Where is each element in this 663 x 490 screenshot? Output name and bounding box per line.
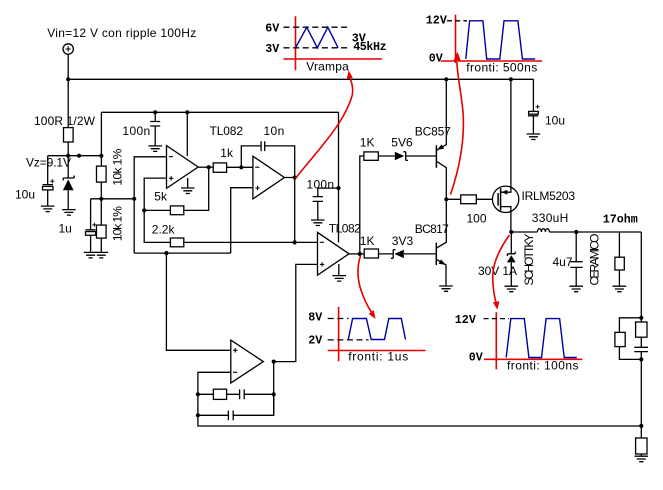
node dot driver output — [444, 197, 448, 201]
feedback resistor op4 — [198, 393, 240, 395]
svg-text:Vin=12 V con ripple 100Hz: Vin=12 V con ripple 100Hz — [47, 26, 196, 40]
resistor 100 gate — [446, 198, 492, 200]
wire terminal to rail — [67, 54, 69, 79]
resistor 1K upper — [364, 152, 378, 160]
svg-text:100n: 100n — [122, 124, 150, 138]
resistor 10k 1% lower — [97, 225, 107, 238]
node dot 4u7 tap — [574, 230, 578, 234]
wire right column down — [640, 359, 642, 438]
op-amp U3 TL082 comparator — [318, 232, 350, 275]
node dot op2 output — [293, 175, 297, 179]
wire 1k to op2 — [227, 166, 253, 168]
node dot rail left — [66, 77, 70, 81]
resistor snubber left branch — [619, 318, 641, 360]
wire output right down — [640, 232, 642, 322]
node dot fb row2 left — [196, 413, 200, 417]
waveform 100ns axes — [484, 312, 582, 369]
wire op4 out down — [273, 362, 275, 416]
svg-text:0V: 0V — [429, 52, 443, 66]
waveform 1us labels — [308, 311, 408, 364]
svg-text:8V: 8V — [308, 311, 322, 325]
ground of 10u output — [527, 134, 541, 140]
node dot fb row1 right — [272, 392, 276, 396]
svg-text:10u: 10u — [15, 187, 35, 201]
resistor 100R 1/2W — [64, 128, 74, 142]
waveform Vrampa dashed levels — [284, 27, 349, 48]
node dot op3 output — [358, 252, 362, 256]
svg-text:1K: 1K — [360, 234, 375, 248]
resistor 1K lower — [364, 249, 378, 258]
svg-text:10n: 10n — [264, 124, 285, 138]
svg-text:12V: 12V — [426, 14, 447, 28]
node dot supply op1 — [185, 110, 189, 114]
op-amp U4 TL082 — [231, 340, 263, 383]
svg-text:30V 1A: 30V 1A — [478, 264, 517, 278]
resistor 17ohm load — [618, 232, 620, 286]
wire 100R to Vz node — [67, 142, 69, 156]
svg-text:100R 1/2W: 100R 1/2W — [34, 114, 96, 128]
ground of zener — [62, 210, 76, 216]
waveform 500ns trace — [466, 21, 535, 59]
capacitor 4u7 — [570, 232, 582, 286]
svg-text:330uH: 330uH — [532, 211, 569, 225]
inductor 330uH — [511, 231, 537, 233]
annotation arrow to 500ns — [451, 62, 464, 195]
waveform 100ns labels — [455, 313, 579, 373]
svg-text:45kHz: 45kHz — [353, 40, 386, 54]
svg-text:Vrampa: Vrampa — [306, 60, 349, 74]
svg-text:100n: 100n — [307, 177, 335, 191]
ground of BC817 — [439, 286, 453, 291]
input terminal Vin — [63, 44, 73, 54]
waveform 1us axes — [328, 307, 426, 361]
svg-text:BC817: BC817 — [415, 222, 449, 236]
capacitor 10u input — [43, 156, 54, 206]
node dot Vz 10k — [99, 154, 103, 158]
resistor 2.2k — [144, 210, 317, 242]
ground of load bottom — [635, 456, 649, 462]
supply stub op1 — [186, 112, 188, 156]
wire op2 output — [284, 178, 294, 243]
resistor 5k — [144, 167, 209, 210]
wire op1 inverting input — [134, 157, 166, 253]
capacitor 100n supply — [150, 112, 160, 146]
svg-text:IRLM5203: IRLM5203 — [522, 189, 576, 203]
svg-text:2.2k: 2.2k — [152, 223, 176, 237]
node dot snubber bottom — [639, 357, 643, 361]
waveform 500ns labels — [426, 14, 537, 75]
node dot rail BC857 — [444, 77, 448, 81]
supply box wire — [101, 111, 338, 113]
zener diode 3V3 — [379, 250, 396, 259]
svg-text:3V: 3V — [265, 42, 279, 56]
node dot op1 output — [207, 165, 211, 169]
wire op4 inverting — [198, 372, 231, 394]
wire rail to 100R — [67, 79, 69, 127]
svg-text:10u: 10u — [545, 114, 565, 128]
node dot ramp to op3 — [293, 240, 297, 244]
wire op3 out up to 1K top — [360, 156, 364, 254]
waveform Vrampa labels — [265, 22, 386, 74]
zener diode Vz 9.1V — [63, 156, 74, 181]
capacitor 10u output top — [528, 79, 538, 134]
wire 10k lower to ground — [100, 238, 102, 252]
svg-text:0V: 0V — [469, 351, 483, 365]
node dot Vz zener — [66, 154, 70, 158]
wire bus to op2 plus — [231, 188, 253, 253]
node dot op2 inv — [239, 165, 243, 169]
svg-text:6V: 6V — [265, 22, 279, 36]
svg-text:fronti: 1us: fronti: 1us — [348, 350, 408, 364]
node dot snubber top — [639, 316, 643, 320]
waveform 1us dashed levels — [328, 319, 369, 340]
capacitor 100n op3 — [313, 188, 339, 220]
resistor snubber right — [636, 322, 647, 337]
svg-text:fronti: 100ns: fronti: 100ns — [507, 359, 579, 373]
waveform 100ns trace — [506, 319, 577, 358]
svg-text:10k 1%: 10k 1% — [111, 148, 125, 185]
capacitor 1u — [86, 199, 96, 253]
ground of op1 — [181, 178, 195, 194]
wire 10k junction — [100, 182, 102, 225]
waveform Vrampa triangle trace — [296, 27, 339, 48]
svg-text:1u: 1u — [59, 221, 72, 235]
node dot fb row1 left — [196, 392, 200, 396]
ground of 100n op3 — [311, 220, 325, 226]
ground of 17ohm — [613, 286, 627, 292]
svg-text:SCHOTTKY: SCHOTTKY — [522, 234, 536, 286]
waveform Vrampa axes — [283, 16, 382, 70]
wire op1 out to 1k — [198, 166, 213, 168]
waveform 500ns dashed level — [447, 20, 467, 22]
svg-text:5V6: 5V6 — [391, 136, 413, 150]
node dot rail MOSFET source — [509, 77, 513, 81]
wire 5V6 to BC857 base — [406, 155, 437, 157]
svg-text:TL082: TL082 — [210, 124, 244, 138]
top supply rail wire — [68, 78, 533, 80]
node dot bus to op4 — [164, 251, 168, 255]
node dot divider mid — [99, 197, 103, 201]
resistor load bottom — [636, 438, 647, 454]
ground of 10u input — [41, 206, 55, 212]
annotation arrow to 1us — [358, 256, 372, 313]
ground of 100n supply — [148, 146, 162, 152]
wire 1K to 5V6 — [378, 155, 395, 157]
feedback capacitor op4 row1 — [240, 389, 274, 399]
svg-text:3V3: 3V3 — [392, 234, 414, 248]
waveform 1us trace — [348, 319, 405, 340]
waveform 100ns dashed level — [484, 318, 509, 320]
svg-text:5k: 5k — [154, 190, 168, 204]
node dot Vz mid — [77, 154, 81, 158]
node dot drain — [509, 230, 513, 234]
svg-text:2V: 2V — [308, 333, 322, 347]
capacitor 10n feedback — [241, 141, 294, 177]
ground of schottky — [505, 286, 519, 292]
wire zener to ground — [67, 190, 69, 209]
resistor 10k 1% upper — [100, 112, 102, 166]
op-amp U1 TL082 — [167, 146, 199, 189]
node dot divider to opamp — [132, 197, 136, 201]
svg-text:100: 100 — [467, 212, 487, 226]
svg-text:fronti: 500ns: fronti: 500ns — [466, 61, 537, 75]
waveform 500ns axes — [441, 15, 542, 63]
svg-text:10k 1%: 10k 1% — [111, 206, 125, 241]
svg-text:1K: 1K — [360, 136, 375, 150]
op-amp U2 TL082 integrator — [253, 156, 285, 199]
annotation arrow to 100ns — [493, 235, 510, 302]
svg-text:4u7: 4u7 — [553, 255, 573, 269]
ground of 4u7 — [569, 286, 583, 292]
svg-text:1k: 1k — [220, 146, 234, 160]
supply stub op3 — [338, 112, 340, 242]
node dot bottom return — [639, 424, 643, 428]
node dot op1 plus feedback — [142, 208, 146, 212]
wire Vz row — [48, 155, 102, 157]
feedback capacitor op4 row2 — [198, 394, 274, 420]
ground of op3 — [332, 264, 346, 281]
svg-text:TL082: TL082 — [329, 222, 361, 236]
node dot op4 output — [272, 360, 276, 364]
svg-text:CERAMICO: CERAMICO — [588, 234, 602, 286]
ground of 1u — [84, 252, 98, 258]
ground of 10k lower — [95, 252, 109, 258]
svg-text:12V: 12V — [455, 313, 476, 327]
wire divider output — [91, 198, 135, 200]
svg-text:Vz=9.1V: Vz=9.1V — [26, 155, 71, 169]
wire op1 plus input — [144, 178, 166, 210]
annotation arrow to Vrampa — [296, 78, 353, 179]
diode schottky 30V 1A — [507, 232, 515, 256]
wire lower bus y253 — [134, 252, 231, 254]
zener diode 5V6 — [395, 152, 404, 160]
wire bus to op4 plus — [166, 253, 230, 350]
wire 3V3 to BC817 base — [404, 253, 437, 255]
wire bottom return — [198, 415, 641, 426]
resistor 1k — [213, 163, 226, 172]
node dot 100n op3 — [336, 186, 340, 190]
svg-text:17ohm: 17ohm — [603, 213, 638, 227]
node dot supply 100n — [153, 110, 157, 114]
transistor Q1 IRLM5203 MOSFET — [492, 186, 518, 212]
wire op3 output — [349, 253, 364, 255]
capacitor snubber — [634, 337, 648, 359]
wire op3 plus input — [274, 264, 318, 361]
